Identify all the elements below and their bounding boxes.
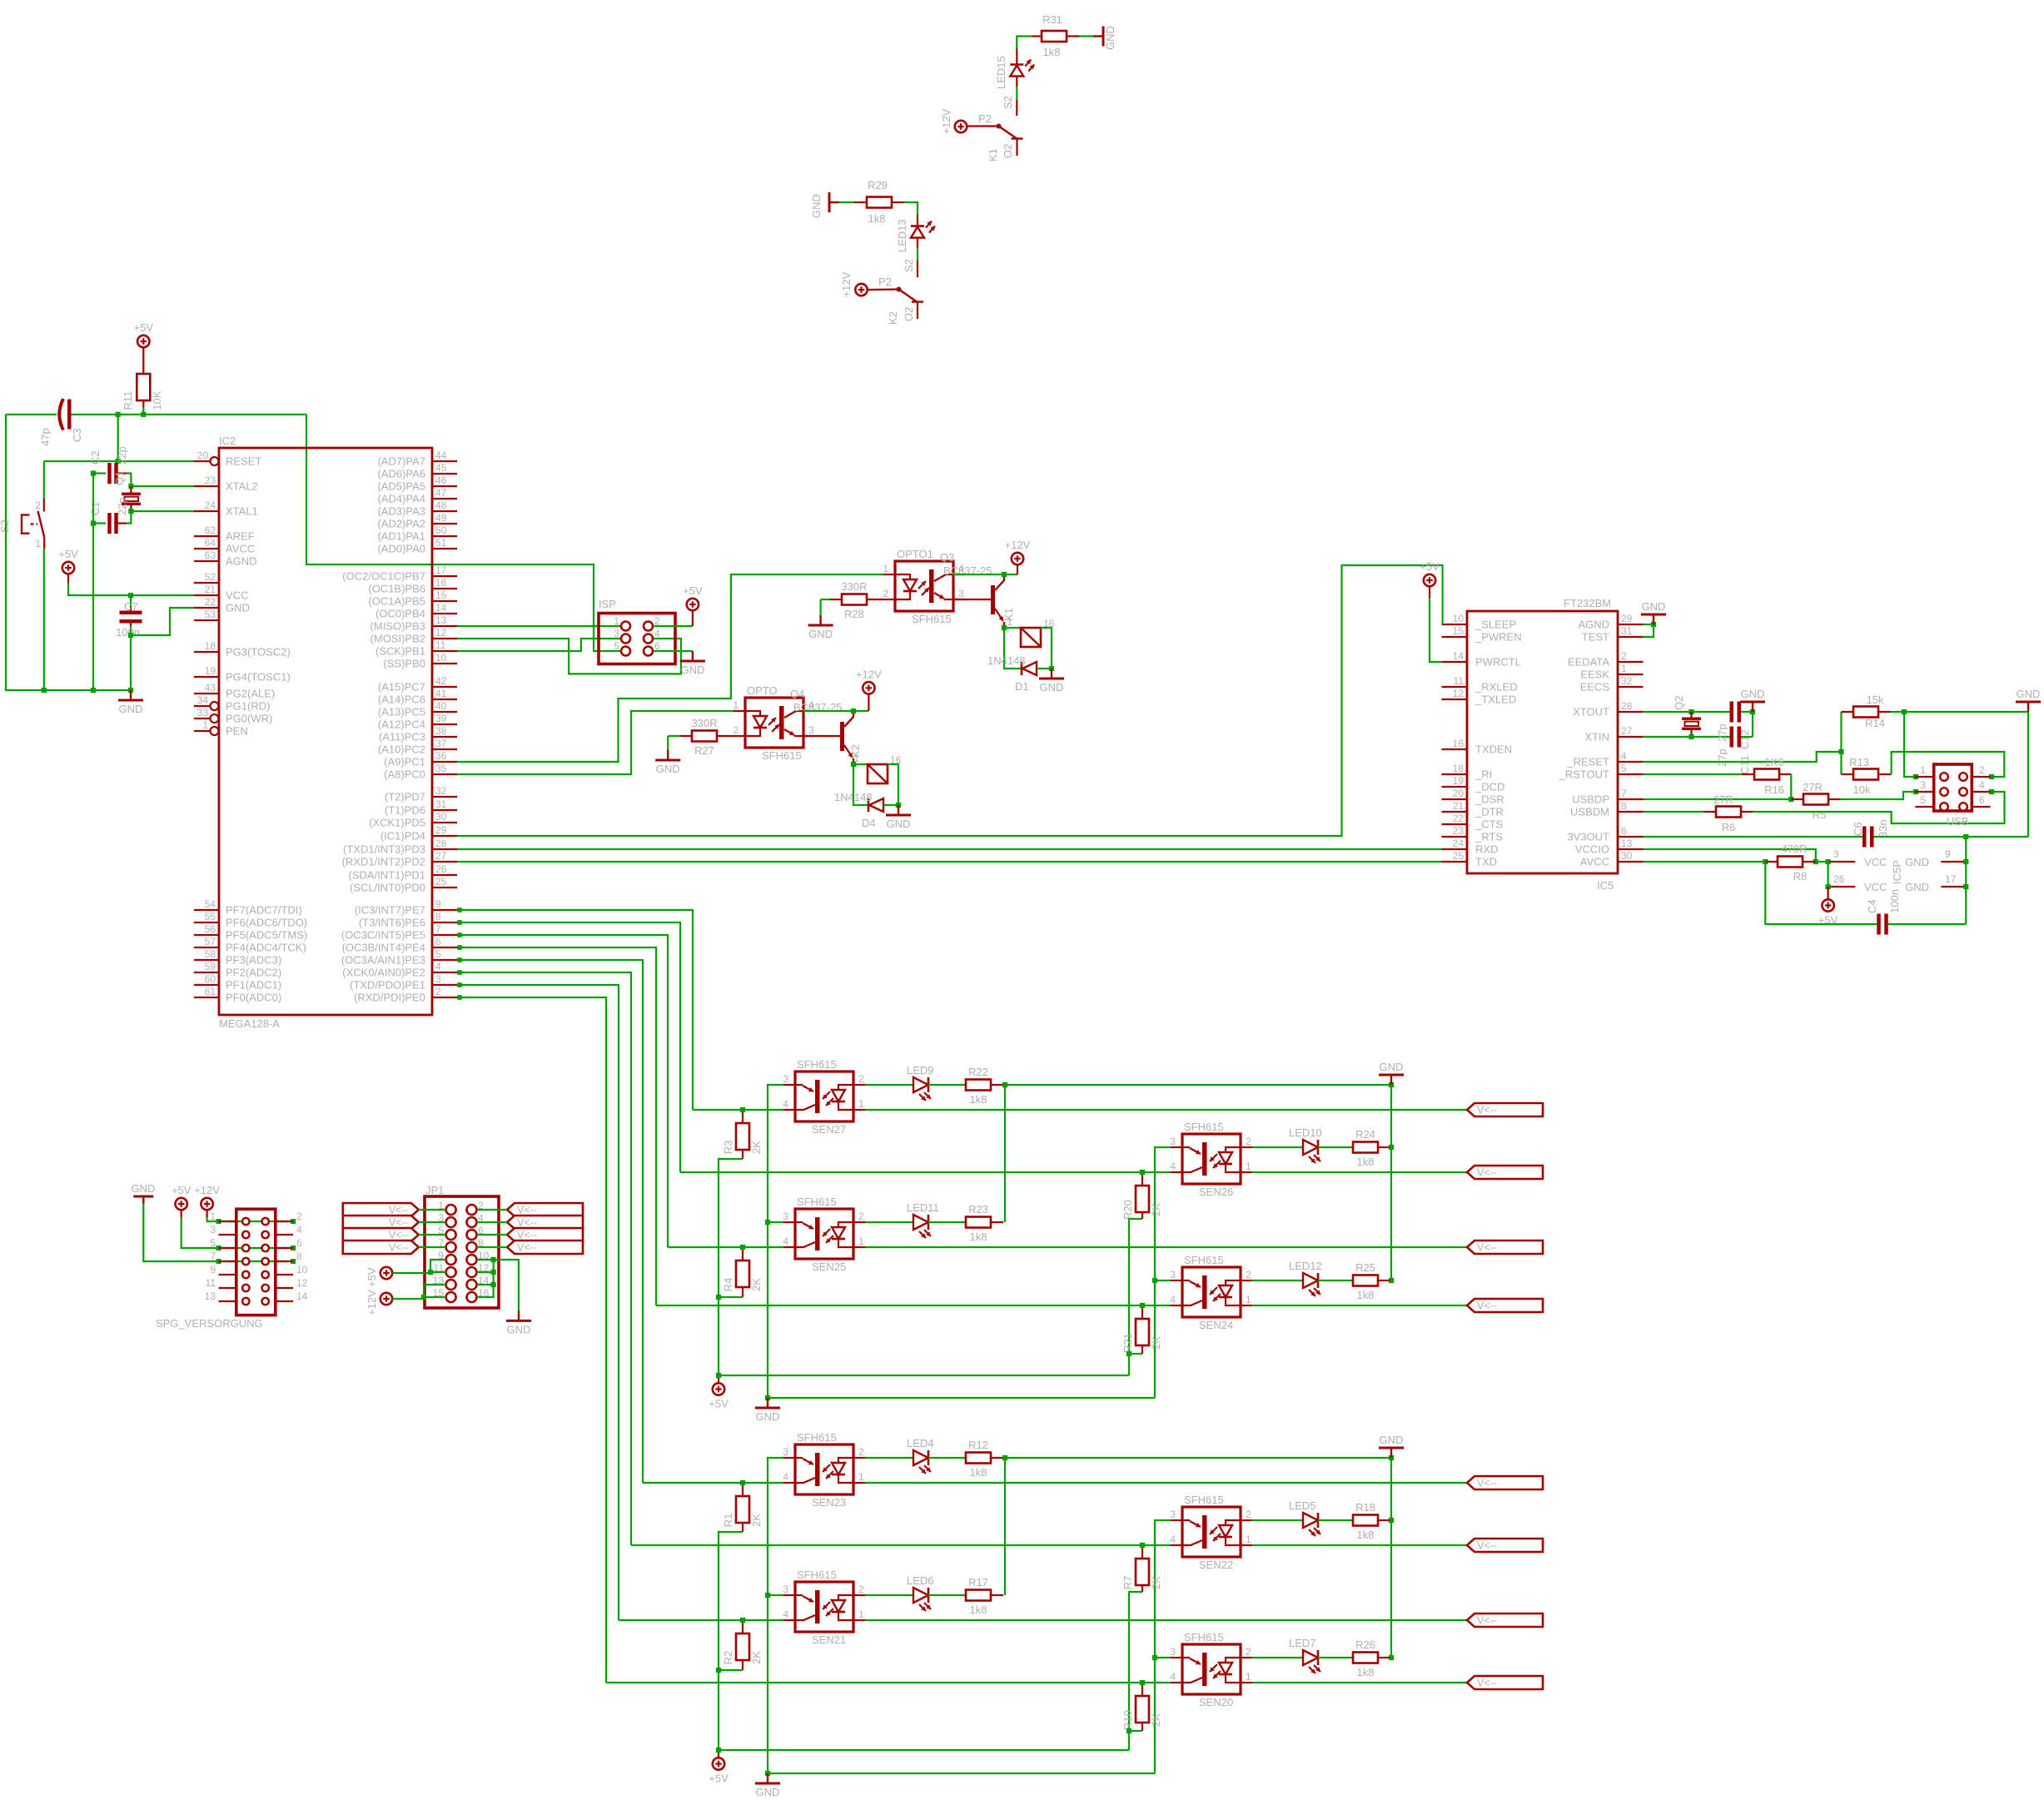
svg-text:(A13)PC5: (A13)PC5 bbox=[378, 706, 425, 719]
junction bbox=[1913, 774, 1918, 779]
svg-text:6: 6 bbox=[435, 936, 441, 947]
svg-text:21: 21 bbox=[1453, 800, 1465, 812]
wire bbox=[127, 474, 131, 487]
junction bbox=[428, 1270, 433, 1275]
node V<-- arrow (JP1 right) bbox=[507, 1216, 583, 1229]
resistor R5 27R bbox=[1791, 798, 1803, 800]
wire R6 to USB pin4 bbox=[1753, 792, 2005, 823]
connector SPG_VERSORGUNG bbox=[236, 1209, 276, 1315]
wire bbox=[1741, 711, 1753, 713]
svg-text:42: 42 bbox=[435, 675, 447, 687]
relay coil K1 bbox=[1021, 628, 1041, 647]
node V<-- arrow bbox=[1467, 1241, 1543, 1254]
svg-text:1k8: 1k8 bbox=[1357, 1666, 1375, 1678]
power +5V (JP1) bbox=[380, 1267, 392, 1279]
IC2 pin 13 (MISO)PB3 bbox=[432, 625, 457, 627]
svg-text:R6: R6 bbox=[1722, 821, 1736, 833]
svg-text:35: 35 bbox=[435, 763, 447, 774]
IC2 pin 19 PG4(TOSC1) bbox=[194, 676, 219, 678]
svg-text:2: 2 bbox=[733, 724, 739, 736]
svg-text:2: 2 bbox=[296, 1211, 302, 1222]
ground GND (D4) bbox=[898, 805, 899, 815]
svg-text:SPG_VERSORGUNG: SPG_VERSORGUNG bbox=[156, 1317, 263, 1330]
junction bbox=[457, 932, 462, 937]
IC5 pin 12 _TXLED bbox=[1442, 699, 1468, 700]
LED LED11 bbox=[865, 1221, 913, 1223]
IC2 pin 26 (SDA/INT1)PD1 bbox=[432, 874, 457, 876]
svg-text:2K: 2K bbox=[1150, 1203, 1162, 1216]
svg-text:(T1)PD6: (T1)PD6 bbox=[385, 804, 425, 817]
svg-text:15: 15 bbox=[435, 589, 447, 601]
IC2 pin 1 PEN bbox=[194, 730, 210, 732]
svg-text:40: 40 bbox=[435, 700, 447, 712]
junction bbox=[457, 982, 462, 987]
svg-text:3: 3 bbox=[1170, 1509, 1176, 1520]
node V<-- arrow bbox=[1467, 1614, 1543, 1627]
svg-text:3: 3 bbox=[210, 1224, 216, 1236]
svg-text:USBDP: USBDP bbox=[1572, 793, 1609, 806]
IC2 pin 58 PF3(ADC3) bbox=[194, 959, 219, 961]
relay contact K1 bbox=[967, 125, 998, 127]
svg-text:+5V: +5V bbox=[134, 321, 154, 334]
junction bbox=[457, 945, 462, 950]
svg-text:9: 9 bbox=[210, 1264, 216, 1275]
svg-text:TXDEN: TXDEN bbox=[1475, 743, 1512, 756]
IC2 pin 23 XTAL2 bbox=[194, 485, 219, 487]
svg-text:(AD7)PA7: (AD7)PA7 bbox=[377, 455, 425, 468]
ISP pin 1 bbox=[621, 622, 630, 631]
svg-text:2: 2 bbox=[858, 1211, 864, 1222]
junction bbox=[740, 1618, 745, 1623]
svg-text:SEN27: SEN27 bbox=[812, 1123, 846, 1136]
wire bbox=[667, 736, 669, 750]
junction bbox=[1826, 884, 1831, 889]
svg-text:12: 12 bbox=[296, 1277, 308, 1289]
svg-text:R13: R13 bbox=[1849, 756, 1869, 768]
wire bbox=[1129, 1353, 1142, 1355]
junction bbox=[116, 412, 121, 417]
svg-text:Q4: Q4 bbox=[790, 688, 804, 700]
capacitor C1 22p bbox=[93, 522, 106, 524]
ground GND (D1) bbox=[1051, 669, 1052, 679]
wire bbox=[1037, 668, 1052, 669]
junction bbox=[128, 484, 133, 489]
junction bbox=[1002, 572, 1007, 577]
junction bbox=[457, 970, 462, 975]
svg-text:3V3OUT: 3V3OUT bbox=[1567, 831, 1609, 843]
svg-text:FT232BM: FT232BM bbox=[1564, 597, 1611, 609]
svg-text:1: 1 bbox=[858, 1471, 864, 1483]
SPG pin 2 bbox=[276, 1221, 293, 1222]
svg-text:7: 7 bbox=[435, 923, 441, 935]
wire PE bus to SEN24 pin4 bbox=[656, 1305, 1171, 1306]
wire pin3 gnd column left bbox=[768, 1085, 1155, 1398]
IC2 pin 44 (AD7)PA7 bbox=[432, 460, 457, 462]
svg-text:R17: R17 bbox=[968, 1576, 988, 1589]
svg-text:_DTR: _DTR bbox=[1475, 806, 1504, 818]
wire bbox=[1644, 624, 1654, 637]
junction bbox=[42, 688, 47, 693]
svg-text:2: 2 bbox=[1246, 1136, 1251, 1147]
svg-text:2K: 2K bbox=[750, 1514, 763, 1527]
svg-text:AGND: AGND bbox=[226, 555, 257, 568]
svg-text:(AD6)PA6: (AD6)PA6 bbox=[377, 468, 425, 480]
svg-text:VCC: VCC bbox=[1864, 856, 1887, 868]
svg-text:VCC: VCC bbox=[226, 589, 248, 602]
svg-text:2: 2 bbox=[1246, 1646, 1251, 1658]
svg-text:2: 2 bbox=[1979, 764, 1985, 776]
capacitor C2 22p bbox=[93, 472, 106, 474]
wire bbox=[803, 710, 868, 712]
svg-text:+5V: +5V bbox=[58, 548, 78, 560]
svg-text:(A8)PC0: (A8)PC0 bbox=[384, 768, 425, 781]
resistor R12 1k8 bbox=[928, 1457, 966, 1459]
junction bbox=[896, 803, 901, 808]
power +12V (K1 contact) bbox=[955, 121, 967, 132]
svg-text:IC2: IC2 bbox=[219, 435, 236, 447]
svg-text:GND: GND bbox=[1642, 600, 1666, 613]
svg-text:20: 20 bbox=[1453, 788, 1465, 799]
ground GND (R28) bbox=[819, 615, 821, 625]
IC2 pin 41 (A14)PC6 bbox=[432, 699, 457, 700]
svg-text:3: 3 bbox=[783, 1446, 788, 1458]
IC2 pin 21 VCC bbox=[194, 594, 219, 596]
IC2 pin 31 (T1)PD6 bbox=[432, 809, 457, 811]
svg-text:1: 1 bbox=[858, 1609, 864, 1620]
junction bbox=[128, 633, 133, 638]
IC2 pin 36 (A9)PC1 bbox=[432, 761, 457, 763]
wire bbox=[477, 1209, 508, 1211]
wire GND pin22 bbox=[131, 608, 194, 635]
power +5V (IC5P) bbox=[1828, 887, 1829, 899]
wire RESET to IC2 bbox=[44, 460, 194, 462]
svg-text:330R: 330R bbox=[841, 580, 867, 593]
IC2 pin 8 (T3/INT6)PE6 bbox=[432, 922, 457, 923]
svg-text:1: 1 bbox=[614, 615, 619, 627]
svg-text:K1: K1 bbox=[987, 148, 999, 162]
wire _RSTOUT to R16 bbox=[1644, 773, 1743, 775]
ground GND (R29) bbox=[829, 201, 839, 203]
IC5 pin 24 RXD bbox=[1442, 848, 1468, 850]
svg-text:1k8: 1k8 bbox=[970, 1604, 987, 1616]
junction bbox=[1788, 797, 1793, 802]
JP1 pin 13 bbox=[446, 1280, 456, 1290]
svg-text:USB: USB bbox=[1947, 815, 1969, 828]
resistor R20 2K bbox=[1141, 1175, 1143, 1186]
wire PE bus to SEN21 pin4 bbox=[619, 1619, 783, 1621]
wire TXD bbox=[457, 861, 1442, 863]
wire bbox=[92, 474, 94, 691]
svg-text:K1: K1 bbox=[1002, 608, 1015, 621]
svg-text:7: 7 bbox=[1621, 788, 1627, 799]
svg-text:1: 1 bbox=[35, 538, 41, 549]
svg-text:45: 45 bbox=[435, 462, 447, 474]
LED LED4 bbox=[865, 1457, 913, 1459]
svg-text:PG1(RD): PG1(RD) bbox=[226, 700, 270, 713]
svg-text:SEN23: SEN23 bbox=[812, 1496, 846, 1509]
svg-text:V<--: V<-- bbox=[1477, 1615, 1497, 1627]
svg-text:30: 30 bbox=[435, 811, 447, 823]
svg-text:29: 29 bbox=[1621, 613, 1633, 624]
SPG pin 8 bbox=[276, 1260, 293, 1262]
junction bbox=[457, 957, 462, 962]
svg-text:(OC3C/INT5)PE5: (OC3C/INT5)PE5 bbox=[341, 929, 425, 942]
svg-text:470R: 470R bbox=[1781, 843, 1807, 855]
svg-text:11: 11 bbox=[1454, 675, 1465, 687]
svg-text:29: 29 bbox=[435, 824, 447, 836]
junction bbox=[1140, 1303, 1145, 1308]
svg-text:1: 1 bbox=[1246, 1294, 1251, 1305]
wire JP1 pin10 to GND bbox=[477, 1260, 520, 1310]
IC2 pin 27 (RXD1/INT2)PD2 bbox=[432, 861, 457, 863]
node V<-- arrow (JP1 right) bbox=[507, 1203, 583, 1216]
junction bbox=[1140, 1543, 1145, 1548]
wire SEN24 pin1 to arrow bbox=[1252, 1305, 1467, 1306]
svg-text:63: 63 bbox=[205, 549, 216, 561]
wire PE bus to SEN22 pin4 bbox=[631, 1544, 1171, 1546]
junction bbox=[1963, 834, 1968, 839]
wire 3V3OUT bbox=[1644, 836, 1863, 838]
svg-text:31: 31 bbox=[435, 798, 447, 810]
svg-text:PF7(ADC7/TDI): PF7(ADC7/TDI) bbox=[226, 904, 302, 917]
svg-text:R23: R23 bbox=[968, 1203, 988, 1216]
power +12V (K2 contact) bbox=[855, 284, 867, 296]
wire bbox=[477, 1246, 508, 1248]
junction bbox=[457, 920, 462, 925]
IC5 pin 19 _DCD bbox=[1442, 786, 1468, 788]
IC5 pin 15 _PWREN bbox=[1442, 636, 1468, 638]
svg-text:61: 61 bbox=[205, 986, 216, 997]
wire XTOUT bbox=[1644, 711, 1730, 713]
junction bbox=[1989, 774, 1994, 779]
junction bbox=[1152, 1278, 1157, 1283]
svg-text:37: 37 bbox=[435, 738, 447, 749]
svg-text:6: 6 bbox=[296, 1237, 302, 1249]
resistor R11 10K bbox=[142, 347, 144, 374]
svg-text:(TXD/PDO)PE1: (TXD/PDO)PE1 bbox=[350, 979, 425, 992]
IC5 pin 4 _RESET bbox=[1618, 761, 1644, 763]
svg-text:EEDATA: EEDATA bbox=[1568, 656, 1609, 669]
power +5V (IC5) bbox=[1424, 574, 1435, 586]
IC2 pin 57 PF4(ADC4/TCK) bbox=[194, 947, 219, 948]
node V<-- arrow bbox=[1467, 1539, 1543, 1552]
junction bbox=[216, 1259, 221, 1264]
svg-text:PF5(ADC5/TMS): PF5(ADC5/TMS) bbox=[226, 929, 307, 942]
wire PE1 bus bbox=[457, 985, 619, 1620]
svg-text:K2: K2 bbox=[887, 311, 899, 325]
IC2 pin 14 (OC0)PB4 bbox=[432, 613, 457, 614]
svg-text:RESET: RESET bbox=[226, 455, 261, 468]
svg-text:SFH615: SFH615 bbox=[762, 749, 802, 762]
svg-text:(A14)PC6: (A14)PC6 bbox=[378, 694, 425, 706]
svg-text:4: 4 bbox=[1170, 1534, 1176, 1545]
svg-text:V<--: V<-- bbox=[1477, 1242, 1497, 1254]
svg-text:2: 2 bbox=[1246, 1269, 1251, 1280]
IC2 pin 49 (AD2)PA2 bbox=[432, 523, 457, 525]
IC5 pin 31 TEST bbox=[1618, 636, 1644, 638]
optocoupler SEN23 SFH615 bbox=[795, 1444, 853, 1494]
wire USBDM bbox=[1644, 811, 1704, 813]
resistor R24 1k8 bbox=[1318, 1146, 1353, 1148]
optocoupler OPTO SFH615 bbox=[745, 698, 803, 748]
svg-text:(OC1A)PB5: (OC1A)PB5 bbox=[368, 595, 425, 608]
wire MOSI to ISP4 bbox=[457, 639, 681, 674]
IC5 pin 11 _RXLED bbox=[1442, 686, 1468, 688]
node V<-- arrow bbox=[1467, 1103, 1543, 1116]
svg-text:(A11)PC3: (A11)PC3 bbox=[379, 731, 425, 743]
SPG pin 4 bbox=[276, 1234, 293, 1236]
wire bbox=[1041, 628, 1052, 669]
svg-text:4: 4 bbox=[1621, 750, 1627, 762]
IC2 pin 59 PF2(ADC2) bbox=[194, 972, 219, 973]
power +12V (JP1) bbox=[380, 1293, 392, 1305]
junction bbox=[1813, 859, 1818, 864]
svg-text:3: 3 bbox=[1920, 779, 1926, 791]
USB pin stubs bbox=[1915, 776, 1933, 778]
svg-text:5: 5 bbox=[614, 640, 619, 652]
IC5 pin 10 _SLEEP bbox=[1442, 624, 1468, 625]
SPG pin 11 bbox=[219, 1287, 236, 1289]
wire XTAL1 bbox=[131, 510, 194, 512]
wire bbox=[477, 1271, 494, 1273]
svg-text:12: 12 bbox=[435, 627, 447, 639]
svg-text:_RSTOUT: _RSTOUT bbox=[1559, 768, 1609, 781]
svg-text:Q2: Q2 bbox=[1673, 696, 1685, 710]
wire bbox=[888, 764, 898, 805]
svg-text:R18: R18 bbox=[1355, 1501, 1375, 1514]
svg-text:SEN26: SEN26 bbox=[1199, 1186, 1233, 1198]
svg-text:19: 19 bbox=[1453, 775, 1465, 787]
IC5 pin 7 USBDP bbox=[1618, 798, 1644, 800]
IC2 pin 42 (A15)PC7 bbox=[432, 686, 457, 688]
IC IC5P power pins bbox=[1830, 861, 1856, 863]
svg-text:(TXD1/INT3)PD3: (TXD1/INT3)PD3 bbox=[343, 843, 425, 856]
svg-text:1k8: 1k8 bbox=[1357, 1529, 1375, 1541]
node V<-- arrow (JP1 left) bbox=[343, 1203, 419, 1216]
svg-text:17: 17 bbox=[435, 564, 447, 576]
svg-text:S2: S2 bbox=[903, 259, 915, 272]
svg-text:1: 1 bbox=[1621, 663, 1627, 674]
power +5V (rail) bbox=[718, 1378, 719, 1383]
svg-text:27R: 27R bbox=[1713, 793, 1733, 806]
svg-text:PWRCTL: PWRCTL bbox=[1475, 656, 1521, 669]
svg-text:PG3(TOSC2): PG3(TOSC2) bbox=[226, 646, 291, 659]
IC2 pin 15 (OC1A)PB5 bbox=[432, 600, 457, 602]
svg-text:_RESET: _RESET bbox=[1566, 756, 1609, 768]
svg-text:OPTO: OPTO bbox=[747, 684, 778, 697]
IC2 pin 11 (SCK)PB1 bbox=[432, 650, 457, 652]
svg-text:4: 4 bbox=[783, 1609, 788, 1620]
svg-text:10: 10 bbox=[1453, 613, 1465, 624]
svg-text:100n: 100n bbox=[116, 626, 140, 639]
svg-text:LED4: LED4 bbox=[907, 1437, 934, 1449]
LED LED9 bbox=[865, 1084, 913, 1086]
IC2 pin 54 PF7(ADC7/TDI) bbox=[194, 909, 219, 911]
wire bbox=[477, 1234, 508, 1236]
optocoupler SEN27 SFH615 bbox=[795, 1072, 853, 1121]
ground GND (R12) bbox=[1390, 1448, 1392, 1458]
svg-text:D4: D4 bbox=[862, 817, 876, 829]
junction bbox=[765, 1593, 770, 1598]
svg-text:4: 4 bbox=[296, 1224, 302, 1236]
wire SEN27 pin1 to arrow bbox=[865, 1109, 1467, 1111]
svg-text:27R: 27R bbox=[1803, 781, 1823, 793]
svg-text:51: 51 bbox=[435, 537, 447, 549]
IC2 pin 46 (AD5)PA5 bbox=[432, 485, 457, 487]
svg-text:GND: GND bbox=[1741, 688, 1765, 700]
wire pin3 gnd column right bbox=[1155, 1147, 1171, 1398]
svg-text:5: 5 bbox=[1920, 794, 1926, 806]
IC2 pin 16 (OC1B)PB6 bbox=[432, 588, 457, 589]
svg-text:AREF: AREF bbox=[226, 530, 255, 543]
wire SEN26 pin1 to arrow bbox=[1252, 1171, 1467, 1173]
wire bbox=[1874, 836, 2029, 838]
svg-text:IC5P: IC5P bbox=[1891, 860, 1903, 884]
JP1 pin 16 bbox=[467, 1292, 477, 1302]
svg-text:R21: R21 bbox=[1121, 1333, 1134, 1353]
IC5 pin 32 EECS bbox=[1618, 686, 1644, 688]
ground GND (R31) bbox=[1093, 35, 1103, 37]
LED LED5 bbox=[1252, 1519, 1303, 1521]
svg-text:3: 3 bbox=[1170, 1646, 1176, 1658]
wire _RESET to R13/R14 node bbox=[1644, 752, 1842, 762]
svg-text:18: 18 bbox=[1453, 763, 1465, 774]
svg-text:EECS: EECS bbox=[1580, 681, 1610, 694]
crystal Q2 bbox=[1690, 712, 1692, 719]
svg-text:_RXLED: _RXLED bbox=[1475, 681, 1518, 694]
resistor R18 1k8 bbox=[1318, 1519, 1353, 1521]
wire gnd rail top bbox=[1005, 1457, 1391, 1459]
svg-text:2: 2 bbox=[35, 500, 41, 511]
svg-text:3: 3 bbox=[783, 1073, 788, 1085]
resistor R25 1k8 bbox=[1318, 1280, 1353, 1281]
power +12V (SPG) bbox=[201, 1198, 212, 1210]
resistor R4 2K bbox=[742, 1250, 743, 1260]
IC5 pin 6 3V3OUT bbox=[1618, 836, 1644, 838]
wire PE2 bus bbox=[457, 972, 631, 1545]
junction bbox=[1963, 859, 1968, 864]
IC U IC5 FT232BM bbox=[1467, 611, 1618, 873]
svg-text:15: 15 bbox=[1453, 625, 1465, 637]
svg-text:_DSR: _DSR bbox=[1475, 793, 1504, 806]
svg-text:LED5: LED5 bbox=[1289, 1499, 1316, 1512]
svg-text:25: 25 bbox=[435, 876, 447, 888]
IC2 pin 33 PG0(WR) bbox=[194, 718, 210, 719]
svg-text:R22: R22 bbox=[968, 1066, 988, 1078]
optocoupler OPTO1 SFH615 bbox=[895, 561, 953, 611]
svg-text:(IC1)PD4: (IC1)PD4 bbox=[380, 830, 425, 843]
resistor R23 1k8 bbox=[928, 1221, 966, 1223]
resistor R22 1k8 bbox=[928, 1084, 966, 1086]
svg-text:LED11: LED11 bbox=[907, 1201, 939, 1214]
junction bbox=[1688, 734, 1693, 739]
junction bbox=[1763, 859, 1768, 864]
svg-text:15k: 15k bbox=[1867, 694, 1884, 706]
svg-text:SEN20: SEN20 bbox=[1199, 1696, 1233, 1708]
svg-text:GND: GND bbox=[810, 194, 823, 218]
junction bbox=[421, 1295, 426, 1300]
wire bbox=[43, 549, 45, 690]
junction bbox=[91, 520, 96, 525]
IC2 pin 5 (OC3A/AIN1)PE3 bbox=[432, 959, 457, 961]
ground GND (SPG) bbox=[142, 1196, 144, 1204]
svg-text:PG0(WR): PG0(WR) bbox=[226, 713, 272, 725]
svg-text:1k8: 1k8 bbox=[1357, 1156, 1375, 1168]
IC2 pin 48 (AD3)PA3 bbox=[432, 510, 457, 512]
junction bbox=[765, 1220, 770, 1225]
svg-text:GND: GND bbox=[1905, 881, 1929, 893]
USB pin 4 bbox=[1959, 788, 1967, 796]
